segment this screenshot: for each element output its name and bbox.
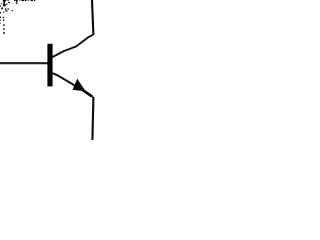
transistor Q1 emitter lead wire bbox=[92, 97, 93, 140]
scan noise blob (top-left corner) bbox=[0, 0, 35, 34]
transistor Q1 base wire bbox=[0, 62, 49, 64]
transistor Q1 emitter arrow bbox=[73, 80, 85, 91]
transistor Q1 emitter diagonal wire bbox=[53, 73, 93, 97]
transistor Q1 base bar bbox=[47, 44, 52, 87]
transistor Q1 collector lead wire bbox=[92, 0, 93, 35]
transistor Q1 collector diagonal wire bbox=[53, 35, 93, 57]
transistor Q1 emitter arrow tip stroke bbox=[83, 90, 92, 96]
